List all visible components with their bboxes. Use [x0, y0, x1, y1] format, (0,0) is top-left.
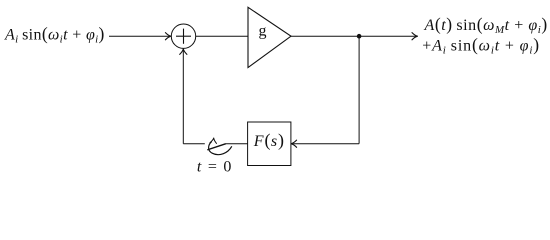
- svg-text:F(s): F(s): [253, 130, 285, 151]
- wire feedback vertical up to summing junction: [182, 50, 184, 144]
- block F(s): [248, 122, 291, 166]
- output arrowhead: [412, 33, 418, 40]
- wire F(s) to switch: [226, 143, 248, 145]
- node (branch dot): [357, 34, 362, 39]
- svg-text:A(t) sin(ωMt + φi): A(t) sin(ωMt + φi): [424, 14, 548, 36]
- plus sign: [176, 29, 191, 44]
- svg-text:g: g: [259, 23, 267, 40]
- amplifier triangle U1: [248, 7, 291, 67]
- arrowhead into F(s) block: [291, 140, 297, 147]
- summing junction circle: [171, 24, 195, 48]
- arrowhead into summing junction: [165, 33, 171, 40]
- svg-text:+Ai sin(ωit + φi): +Ai sin(ωit + φi): [422, 34, 540, 56]
- switch arrowhead: [210, 138, 217, 144]
- switch blade: [207, 144, 226, 150]
- wire switch to corner: [183, 143, 205, 145]
- arrowhead into summing junction bottom: [180, 49, 187, 55]
- wire summing junction to amplifier: [196, 35, 248, 37]
- wire input to summing junction: [109, 35, 170, 37]
- wire feedback right horizontal: [292, 143, 359, 145]
- svg-text:Ai sin(ωit + φi): Ai sin(ωit + φi): [4, 24, 105, 46]
- svg-text:t = 0: t = 0: [197, 159, 233, 176]
- wire amplifier to output arrow: [291, 35, 416, 37]
- wire node down: [358, 36, 360, 144]
- switch closing curved arrow: [209, 142, 232, 155]
